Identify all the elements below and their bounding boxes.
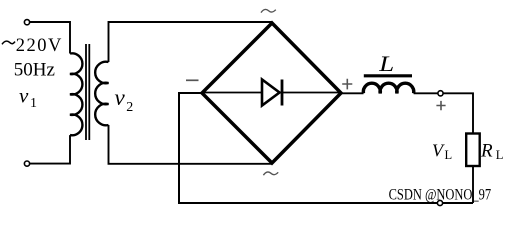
wire secondary top — [109, 22, 273, 62]
wire load bottom — [472, 166, 474, 203]
node AC bottom tilde — [263, 172, 278, 175]
node AC top tilde — [261, 9, 276, 12]
svg-text:L: L — [496, 148, 504, 162]
bridge rectifier diamond — [202, 23, 341, 163]
svg-text:L: L — [378, 52, 394, 76]
terminal output plus — [438, 91, 443, 96]
wire bridge plus to inductor — [341, 92, 364, 94]
terminal bottom-left — [24, 161, 29, 166]
wire primary bottom — [30, 135, 70, 164]
wire terminal to load — [443, 93, 473, 133]
svg-text:1: 1 — [30, 96, 37, 111]
svg-text:v: v — [115, 85, 126, 110]
svg-text:L: L — [445, 148, 453, 162]
wire primary top — [30, 22, 70, 54]
diode D1 cathode bar — [281, 80, 284, 106]
transformer core — [86, 44, 89, 140]
svg-text:2: 2 — [126, 100, 133, 115]
wire inductor to terminal — [414, 92, 438, 94]
wire diode axis — [203, 92, 340, 94]
svg-text:V: V — [432, 141, 445, 161]
inductor L core bar — [364, 74, 412, 77]
terminal output minus — [437, 200, 442, 205]
svg-text:50Hz: 50Hz — [14, 60, 55, 81]
plus sign output terminal — [436, 101, 445, 110]
label ~220V tilde — [2, 41, 15, 44]
terminal top-left — [24, 20, 29, 25]
minus sign bridge output — [186, 79, 199, 81]
svg-text:R: R — [480, 141, 493, 162]
wire negative rail — [179, 93, 473, 203]
transformer secondary winding — [95, 62, 108, 126]
resistor RL — [466, 134, 480, 167]
wire secondary bottom — [109, 125, 273, 164]
svg-text:v: v — [19, 84, 29, 108]
transformer primary winding — [70, 53, 82, 135]
diode D1 triangle — [262, 80, 280, 106]
inductor L winding — [363, 83, 413, 93]
svg-text:220V: 220V — [16, 36, 63, 56]
plus sign bridge output — [342, 79, 352, 90]
